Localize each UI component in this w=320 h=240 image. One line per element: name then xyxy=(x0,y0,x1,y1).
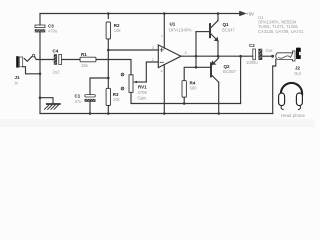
power +9V arrow xyxy=(240,12,245,16)
svg-text:Q1: Q1 xyxy=(223,22,230,27)
node plug tip dot xyxy=(271,55,274,58)
node pin7 bus xyxy=(163,12,166,15)
node R2 top on bus xyxy=(107,12,110,15)
svg-text:R3: R3 xyxy=(113,92,119,97)
transistor Q1 xyxy=(209,14,218,57)
svg-text:C1: C1 xyxy=(75,94,81,99)
node Q1 collector bus xyxy=(217,12,220,15)
node J1 sleeve junction xyxy=(39,73,42,76)
node R4 feedback junction xyxy=(183,102,186,105)
node feedback output tap xyxy=(239,55,242,58)
svg-text:4: 4 xyxy=(161,70,163,74)
plug symbol xyxy=(276,51,295,61)
svg-text:R2: R2 xyxy=(114,23,120,28)
svg-text:Head phone: Head phone xyxy=(281,113,305,118)
svg-text:Out: Out xyxy=(266,48,274,53)
svg-text:560: 560 xyxy=(190,86,198,91)
node pin4 bus xyxy=(163,112,166,115)
op-amp U1 xyxy=(158,45,181,68)
wire Q1 base line xyxy=(196,31,209,33)
wire feedback rise to output xyxy=(240,56,242,103)
node output junction xyxy=(195,55,198,58)
wire to + input xyxy=(108,49,158,51)
wire R3 to bus xyxy=(107,106,109,114)
svg-text:6: 6 xyxy=(185,51,187,55)
capacitor C1 xyxy=(85,95,96,102)
resistor R4 xyxy=(182,81,186,98)
node ground tap xyxy=(39,96,42,99)
node emitters junction xyxy=(217,55,220,58)
resistor R3 xyxy=(106,88,110,105)
node tip circle xyxy=(32,54,34,56)
wire C1 to bus xyxy=(89,102,91,114)
jack socket J2 xyxy=(296,48,301,59)
svg-text:3: 3 xyxy=(152,46,154,50)
capacitor C2 xyxy=(253,49,262,60)
wire R1 to RV1 corner xyxy=(96,60,131,75)
svg-text:10k: 10k xyxy=(114,28,122,33)
wire R4 top elbow xyxy=(184,67,196,80)
svg-text:C3: C3 xyxy=(48,23,54,28)
wire ground bus xyxy=(40,113,273,115)
wire C3 down to ground corner xyxy=(39,32,41,113)
wire R4 bottom xyxy=(183,97,185,103)
svg-text:J2: J2 xyxy=(295,66,301,71)
svg-text:Gain: Gain xyxy=(138,95,148,100)
svg-text:C4: C4 xyxy=(53,49,59,54)
wire wiper to inverting input xyxy=(146,62,158,82)
wire C1 elbow xyxy=(90,78,108,95)
svg-text:470K: 470K xyxy=(138,90,148,95)
svg-text:Q2: Q2 xyxy=(224,64,231,69)
capacitor C4 xyxy=(54,55,62,65)
wire base drive vertical xyxy=(195,32,197,68)
svg-text:C2: C2 xyxy=(249,43,255,48)
headphone icon xyxy=(279,83,303,110)
wire input line to C4 xyxy=(35,57,54,60)
wire +9V top bus xyxy=(40,13,240,15)
resistor R1 xyxy=(80,57,96,62)
svg-text:470u: 470u xyxy=(48,29,58,34)
wiper arrow of RV1 xyxy=(133,81,146,84)
wire op-amp output to C2 xyxy=(181,55,253,57)
svg-text:R4: R4 xyxy=(190,80,196,85)
capacitor C3 xyxy=(35,25,45,32)
wire J1 tip contact xyxy=(24,57,32,62)
svg-text:OPA134PA: OPA134PA xyxy=(169,27,193,32)
wire left vertical (+9V to C3) xyxy=(39,14,41,26)
svg-text:Out: Out xyxy=(294,71,302,76)
node base lower junction xyxy=(195,66,198,69)
svg-text:2u2: 2u2 xyxy=(53,70,61,75)
svg-text:2: 2 xyxy=(152,58,154,62)
wire Q2 base line xyxy=(196,66,210,68)
svg-text:R1: R1 xyxy=(81,52,87,57)
resistor R2 xyxy=(106,14,110,51)
wire C4 to R1 xyxy=(62,59,80,61)
svg-text:47u: 47u xyxy=(75,99,83,104)
wire bias vertical xyxy=(107,50,109,88)
svg-text:J1: J1 xyxy=(15,75,21,80)
potentiometer RV1 xyxy=(121,73,133,92)
node R3 bus xyxy=(107,112,110,115)
svg-text:U1: U1 xyxy=(170,22,176,27)
svg-text:RV1: RV1 xyxy=(138,85,147,90)
svg-text:7: 7 xyxy=(161,35,163,39)
pin 4 wire xyxy=(163,65,165,114)
svg-text:+9V: +9V xyxy=(247,11,255,16)
connector J1 xyxy=(16,56,22,67)
svg-text:BC547: BC547 xyxy=(222,28,235,33)
svg-text:1000u: 1000u xyxy=(246,60,258,65)
wire C2 to plug xyxy=(262,55,272,57)
wire J1 sleeve to ground vertical xyxy=(23,67,40,74)
svg-text:BC557: BC557 xyxy=(223,69,236,74)
svg-text:CA3130, UA709, UA741: CA3130, UA709, UA741 xyxy=(258,29,304,34)
node noninverting junction xyxy=(107,49,110,52)
wire RV1 bottom to feedback line xyxy=(131,92,241,103)
svg-text:10k: 10k xyxy=(113,97,121,102)
node Q2 collector bus xyxy=(217,112,220,115)
svg-text:15k: 15k xyxy=(81,63,89,68)
transistor Q2 xyxy=(210,58,219,114)
node C1 tap xyxy=(107,77,110,80)
wire ground bus rise to J2 sleeve xyxy=(273,59,276,113)
pin 7 wire xyxy=(163,14,165,49)
ground symbol xyxy=(40,98,60,110)
node C1 bus xyxy=(89,112,92,115)
